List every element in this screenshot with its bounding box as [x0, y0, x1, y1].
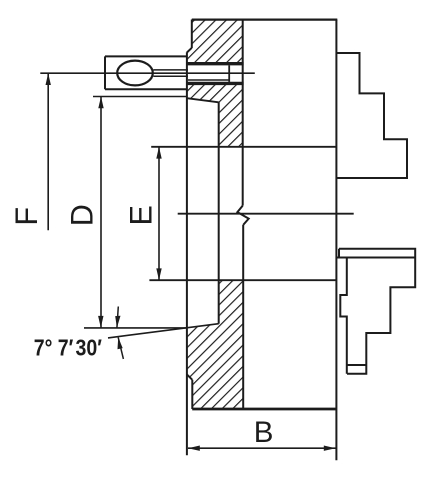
hatched section top flange: [187, 20, 243, 63]
body top edge: [192, 18, 337, 20]
B arrow left: [188, 446, 200, 451]
socket end wall: [228, 65, 230, 82]
key body rectangle: [105, 56, 187, 89]
body back face / B extension left: [186, 52, 188, 455]
bottom jaw top plate: [339, 249, 415, 258]
svg-text:E: E: [123, 205, 159, 225]
F arrow: [46, 73, 51, 85]
section boundary lower: [242, 225, 244, 409]
svg-text:7°7′30′: 7°7′30′: [34, 335, 102, 361]
key shank bottom line: [153, 75, 188, 77]
break zigzag: [237, 206, 248, 225]
key socket upper thick band: [187, 62, 244, 65]
svg-text:D: D: [64, 204, 100, 226]
bottom jaw bottom strip line: [347, 364, 367, 366]
body front face: [335, 20, 337, 461]
angle arrow lower: [118, 337, 123, 359]
key ellipse: [117, 61, 153, 86]
center line: [178, 213, 354, 215]
key socket lower thick band: [187, 82, 244, 85]
E dimension line: [158, 147, 160, 280]
top jaw stepped profile: [336, 53, 407, 178]
D top extension line: [93, 96, 187, 98]
B arrow right: [324, 446, 336, 451]
key center line / F extension: [40, 72, 255, 74]
D bottom extension line: [84, 327, 187, 329]
E arrow up: [156, 147, 161, 159]
section boundary upper: [242, 20, 244, 206]
hatched section upper middle (taper region): [187, 85, 243, 147]
svg-text:F: F: [8, 207, 44, 226]
svg-text:B: B: [254, 416, 274, 449]
socket bottom line: [188, 79, 230, 81]
taper line bottom with extension: [108, 324, 219, 338]
flange bottom-left edge: [191, 380, 193, 409]
flange top-left edge: [191, 20, 193, 49]
hatched section lower (taper to bottom flange): [187, 280, 243, 409]
B dimension line: [188, 447, 336, 449]
bottom jaw left edge upper: [340, 258, 347, 374]
bottom chamfer: [187, 374, 192, 379]
taper line top: [187, 98, 219, 102]
body bottom edge: [192, 408, 336, 411]
bore bottom line / E bottom extension: [149, 279, 336, 281]
bottom jaw plate lower line: [336, 257, 415, 259]
bore top line / E top extension: [151, 146, 336, 148]
angle arrow upper: [117, 307, 118, 328]
D arrow down: [98, 316, 103, 328]
D dimension line: [100, 97, 102, 328]
bottom jaw stepped profile: [347, 258, 415, 374]
recess bottom face: [218, 102, 220, 323]
top chamfer: [187, 48, 192, 53]
key shank top line: [153, 69, 188, 71]
D arrow up: [98, 97, 103, 109]
F dimension line: [47, 73, 49, 230]
E arrow down: [156, 268, 161, 280]
